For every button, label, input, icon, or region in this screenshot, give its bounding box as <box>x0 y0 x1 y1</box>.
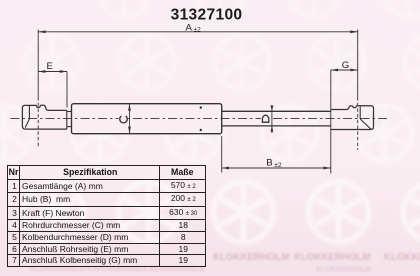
dim D line through rod <box>271 105 273 133</box>
svg-text:KLOKKERHOLM KAROSSERIDELE KLOK: KLOKKERHOLM KAROSSERIDELE KLOKKERHOLM <box>30 266 205 273</box>
svg-text:31327100: 31327100 <box>171 7 243 24</box>
right fitting inner vertical edge <box>359 106 361 119</box>
cylinder tube body fill <box>72 104 222 134</box>
tube clamp dots <box>200 106 202 108</box>
svg-text:KLOKKERHOLM: KLOKKERHOLM <box>213 252 289 263</box>
dim A arrows <box>38 30 45 33</box>
dim G line <box>331 69 358 71</box>
label D (rotated, flat side down) <box>261 114 271 124</box>
label C (rotated, opening up) <box>119 114 129 124</box>
left fitting collar right edge <box>66 110 68 129</box>
watermark row 4 (bottom, strongest) <box>24 182 420 242</box>
svg-text:G: G <box>342 60 349 71</box>
svg-text:E: E <box>47 61 53 72</box>
watermark row 2 <box>25 35 420 90</box>
left fitting chamfer edge <box>25 119 29 128</box>
dim C line inside tube <box>129 104 131 134</box>
right fitting top profile: notch, dome, shoulder <box>331 106 357 110</box>
svg-text:KLOKKERHOLM: KLOKKERHOLM <box>316 267 371 274</box>
dim A line <box>38 31 358 33</box>
left fitting neck <box>67 111 72 113</box>
dim A extension line right (solid + dashed eye centre) <box>357 30 359 98</box>
dim C arrows <box>128 104 131 111</box>
dim G arrows <box>331 69 338 72</box>
watermark row 1 (top, partial circles) <box>97 0 420 17</box>
long extension line at rod end (G left / B right) <box>330 70 332 174</box>
dim B extension left <box>221 136 223 173</box>
dim E line <box>38 71 67 73</box>
cylinder tube body <box>72 104 222 134</box>
dimension labels <box>47 22 350 169</box>
specification table <box>7 165 206 267</box>
piston rod <box>222 110 331 112</box>
dim D arrows <box>271 106 274 112</box>
right fitting chamfer edge <box>360 119 371 129</box>
left end fitting outline <box>22 105 66 129</box>
svg-text:A±2: A±2 <box>186 22 202 33</box>
watermark text band 2 <box>30 266 371 274</box>
watermark text band 1 <box>213 252 420 263</box>
dim E extension right <box>66 72 68 108</box>
dim B arrows <box>222 167 229 170</box>
left fitting top profile: notch, dome, shoulder <box>36 105 66 110</box>
dim B line <box>222 167 331 169</box>
left fitting inner vertical edge <box>28 105 30 119</box>
arrowheads <box>38 30 358 169</box>
svg-text:KLOKKERH: KLOKKERH <box>384 252 420 263</box>
centerline <box>11 118 390 120</box>
watermark row 3 <box>0 106 412 161</box>
dim E arrows <box>38 70 45 73</box>
right end fitting outline <box>331 106 374 130</box>
svg-text:KLOKKERHOLM: KLOKKERHOLM <box>294 252 370 263</box>
dim A extension line left (solid + dashed eye centre) <box>37 30 39 98</box>
